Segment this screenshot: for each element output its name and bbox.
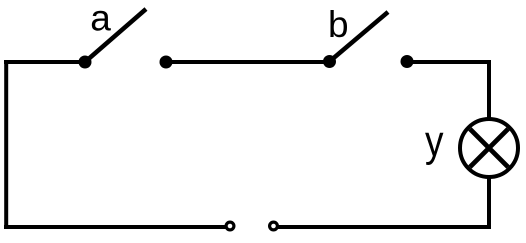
- lamp Y cross stroke 2: [470, 129, 508, 167]
- wire: bottom-right segment: [277, 225, 491, 229]
- wire: bottom-left segment: [4, 225, 226, 229]
- switch b blade: [330, 12, 389, 62]
- wire: right vertical lower: [487, 177, 491, 229]
- switch b left contact dot: [323, 55, 336, 68]
- terminal: right open circle: [270, 222, 278, 230]
- lamp Y cross stroke 1: [470, 129, 508, 167]
- wire: right vertical upper: [487, 60, 491, 119]
- lamp Y circle: [460, 119, 518, 177]
- switch a right contact dot: [160, 56, 173, 69]
- wire: left vertical: [4, 60, 8, 229]
- svg-text:b: b: [328, 4, 349, 45]
- switch a blade: [85, 9, 146, 62]
- wire: between switches: [166, 60, 330, 64]
- wire: top-left segment: [4, 60, 85, 64]
- wire: top-right segment: [407, 60, 491, 64]
- switch a left contact dot: [79, 56, 92, 69]
- svg-text:a: a: [90, 0, 111, 39]
- switch b right contact dot: [401, 55, 414, 68]
- terminal: left open circle: [226, 222, 234, 230]
- svg-text:y: y: [425, 116, 444, 166]
